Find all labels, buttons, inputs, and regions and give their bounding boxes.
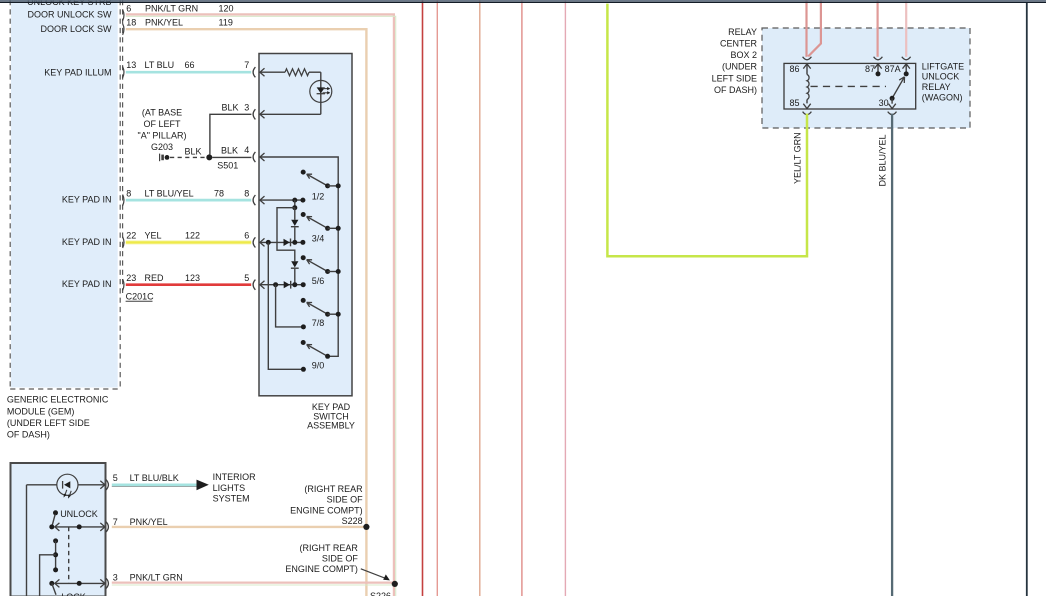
- svg-text:RED: RED: [145, 273, 165, 283]
- keypad pin 4 connector: [244, 145, 264, 162]
- keypad pin 3 connector: [244, 103, 264, 120]
- svg-text:3/4: 3/4: [312, 234, 325, 244]
- keypad branch pin 6 to 9/0 row: [268, 242, 306, 371]
- mechanical link (dashed): [68, 527, 70, 584]
- wire YEL/LT GRN from relay pin 85: [607, 4, 807, 257]
- wire BLK (G203 to S501, dashed): [170, 146, 206, 157]
- center contact chain: [40, 538, 59, 596]
- GEM pin 22 connector bracket: [123, 231, 137, 248]
- ground G203 location label: [138, 108, 187, 152]
- wire feed to relay pin 86 (vertical): [805, 0, 807, 57]
- keypad row line pin 5 (5/6) with diode: [260, 281, 306, 289]
- wire DK BLU/YEL label (rotated): [878, 134, 888, 186]
- door lock switch pin 7 connector: [100, 517, 117, 532]
- GEM pin 6 connector bracket: [123, 3, 132, 21]
- svg-text:PNK/LT GRN: PNK/LT GRN: [145, 3, 198, 13]
- driver door lock switch box: [11, 463, 106, 596]
- svg-text:RELAY: RELAY: [922, 82, 951, 92]
- svg-text:BLK: BLK: [185, 146, 202, 156]
- keypad switch 7/8: [301, 298, 341, 328]
- interior lights system label: [213, 472, 257, 504]
- wire DK BLU/YEL from relay pin 30: [891, 114, 893, 596]
- svg-text:S226: S226: [370, 591, 391, 596]
- GEM pin 13 connector bracket: [123, 60, 137, 78]
- svg-text:4: 4: [244, 145, 249, 155]
- svg-text:8: 8: [126, 188, 131, 198]
- unlock switch: [49, 509, 97, 531]
- svg-text:122: 122: [185, 231, 200, 241]
- svg-text:PNK/LT GRN: PNK/LT GRN: [130, 573, 183, 583]
- keypad pin 6 connector: [244, 231, 264, 248]
- svg-text:8: 8: [244, 188, 249, 198]
- svg-text:(UNDER LEFT SIDE: (UNDER LEFT SIDE: [7, 418, 90, 428]
- wire 66 labels: [145, 60, 195, 70]
- wire YEL/LT GRN label (rotated): [793, 132, 803, 184]
- svg-text:119: 119: [219, 18, 233, 28]
- svg-text:PNK/YEL: PNK/YEL: [145, 18, 183, 28]
- keypad assembly name label: [307, 402, 355, 431]
- svg-text:MODULE (GEM): MODULE (GEM): [7, 406, 75, 416]
- keypad pin 5 connector: [244, 273, 264, 290]
- svg-text:5/6: 5/6: [312, 276, 325, 286]
- svg-text:G203: G203: [151, 142, 173, 152]
- keypad switch 9/0: [301, 340, 330, 371]
- svg-text:1/2: 1/2: [312, 191, 325, 201]
- svg-text:LT BLU: LT BLU: [145, 60, 175, 70]
- svg-text:C201C: C201C: [126, 291, 155, 301]
- wire 122 labels: [145, 231, 201, 241]
- svg-text:ENGINE COMPT): ENGINE COMPT): [285, 564, 358, 574]
- svg-text:RELAY: RELAY: [728, 27, 757, 37]
- interior lights system arrow: [197, 480, 209, 491]
- svg-text:87: 87: [865, 64, 875, 74]
- svg-text:OF DASH): OF DASH): [7, 430, 50, 440]
- svg-text:YEL: YEL: [145, 231, 162, 241]
- keypad switch 1/2: [301, 170, 341, 202]
- svg-text:S228: S228: [342, 516, 363, 526]
- door lock switch pin 3 connector: [100, 573, 117, 589]
- svg-text:7/8: 7/8: [312, 318, 325, 328]
- wire PNK/YEL (pin 7 to S228): [112, 526, 367, 528]
- svg-text:22: 22: [126, 231, 136, 241]
- wire BLK (S501 to keypad pin 4): [212, 145, 251, 157]
- wire feed to relay pin 87: [876, 0, 878, 57]
- keypad switch assembly box: [259, 54, 352, 396]
- svg-text:LOCK: LOCK: [61, 592, 86, 596]
- ground symbol G203: [160, 154, 170, 162]
- S226 location label with arrow: [285, 543, 391, 596]
- relay switch arm 30-87A: [890, 77, 905, 101]
- wire PNK/LT GRN (pin 3 to S226): [112, 583, 395, 585]
- svg-text:KEY PAD ILLUM: KEY PAD ILLUM: [44, 68, 111, 78]
- switch illumination LED: [27, 474, 105, 498]
- svg-text:BOX 2: BOX 2: [730, 50, 757, 60]
- svg-text:DOOR UNLOCK SW: DOOR UNLOCK SW: [27, 10, 112, 20]
- door lock switch pin 5 connector: [100, 473, 117, 490]
- keypad switch 5/6: [301, 255, 341, 286]
- keypad pin 8 connector: [244, 188, 264, 205]
- relay pin 87A: [885, 57, 911, 77]
- svg-text:OF LEFT: OF LEFT: [143, 119, 181, 129]
- wire 120 labels: [145, 3, 234, 13]
- svg-text:5: 5: [113, 473, 118, 483]
- svg-text:ASSEMBLY: ASSEMBLY: [307, 421, 355, 431]
- svg-text:(RIGHT REAR: (RIGHT REAR: [300, 543, 359, 553]
- svg-text:UNLOCK: UNLOCK: [922, 72, 960, 82]
- GEM pin 18 connector bracket: [123, 18, 137, 35]
- svg-text:KEY PAD IN: KEY PAD IN: [62, 237, 112, 247]
- svg-text:CENTER: CENTER: [720, 39, 758, 49]
- svg-text:"A" PILLAR): "A" PILLAR): [138, 130, 187, 140]
- keypad pin 7 connector: [244, 60, 264, 77]
- svg-text:(UNDER: (UNDER: [722, 62, 757, 72]
- svg-text:BLK: BLK: [222, 103, 239, 113]
- svg-text:3: 3: [113, 573, 118, 583]
- keypad row line pin 8 (1/2): [260, 198, 306, 203]
- wire PNK/LT GRN label: [130, 573, 183, 583]
- svg-text:(AT BASE: (AT BASE: [142, 108, 182, 118]
- svg-text:UNLOCK: UNLOCK: [60, 509, 98, 519]
- svg-text:INTERIOR: INTERIOR: [213, 472, 257, 482]
- wire BLK (S501 to keypad pin 3): [210, 103, 252, 155]
- svg-text:OF DASH): OF DASH): [714, 85, 757, 95]
- relay center label: [712, 27, 758, 95]
- wire YEL circuit 122 (GEM pin 22 to keypad pin 6): [126, 240, 251, 244]
- wire 123 labels: [145, 273, 201, 283]
- lock row line to pin 3: [55, 581, 105, 586]
- svg-text:GENERIC ELECTRONIC: GENERIC ELECTRONIC: [7, 395, 109, 405]
- relay coil 86-85: [807, 64, 809, 104]
- svg-text:23: 23: [126, 273, 136, 283]
- svg-text:18: 18: [126, 18, 136, 28]
- splice S228: [363, 524, 369, 530]
- svg-text:66: 66: [185, 60, 195, 70]
- keypad illumination LED: [310, 72, 332, 114]
- svg-text:YEL/LT GRN: YEL/LT GRN: [793, 132, 803, 184]
- keypad branch pin 5 to 7/8 row: [276, 285, 306, 330]
- svg-text:78: 78: [214, 188, 224, 198]
- top border bar: [0, 0, 1046, 3]
- svg-text:S501: S501: [217, 161, 238, 171]
- relay pin 85: [789, 98, 811, 115]
- svg-text:7: 7: [244, 60, 249, 70]
- svg-text:(WAGON): (WAGON): [922, 92, 963, 102]
- connector C201C label: [126, 291, 155, 301]
- S228 location label: [290, 484, 363, 526]
- svg-text:120: 120: [219, 3, 234, 13]
- svg-text:9/0: 9/0: [312, 361, 325, 371]
- svg-text:ENGINE COMPT): ENGINE COMPT): [290, 505, 363, 515]
- keypad switch 3/4: [301, 212, 341, 244]
- svg-text:KEY PAD IN: KEY PAD IN: [62, 279, 112, 289]
- keypad diode ladder from pin 8 node: [277, 200, 299, 285]
- wire LT BLU circuit 66 (GEM pin 13 to keypad pin 7): [126, 71, 251, 74]
- pass-through wire at x=437.3: [436, 0, 438, 596]
- wire LT BLU/YEL circuit 78 (GEM pin 8 to keypad pin 8): [126, 199, 251, 202]
- svg-text:13: 13: [126, 60, 136, 70]
- svg-text:KEY PAD IN: KEY PAD IN: [62, 195, 112, 205]
- wire PNK/YEL label: [130, 517, 168, 527]
- wire LED return to keypad pin 3: [260, 113, 321, 115]
- keypad illumination resistor: [260, 69, 321, 76]
- svg-text:6: 6: [244, 231, 249, 241]
- splice S501: [206, 154, 238, 170]
- pass-through wire at x=422.5: [422, 0, 424, 596]
- wire PNK/YEL circuit 119 (GEM pin 18 to splice S228): [126, 29, 367, 596]
- liftgate unlock relay box U2: [784, 63, 916, 109]
- pass-through wire at x=565.4: [564, 0, 566, 596]
- svg-text:3: 3: [244, 103, 249, 113]
- svg-text:30: 30: [879, 98, 889, 108]
- wire 119 labels: [145, 18, 233, 28]
- unlock row line to pin 7: [55, 524, 105, 529]
- svg-text:SIDE OF: SIDE OF: [327, 495, 364, 505]
- svg-text:DK BLU/YEL: DK BLU/YEL: [878, 134, 888, 186]
- wire RED circuit 123 (GEM pin 23 to keypad pin 5): [126, 283, 251, 286]
- svg-text:LIFTGATE: LIFTGATE: [922, 61, 964, 71]
- pass-through wire at x=479.8: [479, 0, 481, 596]
- svg-text:87A: 87A: [885, 64, 901, 74]
- relay pin 87: [865, 57, 882, 77]
- pass-through wire at x=521.9: [521, 0, 523, 596]
- wire feed to relay pin 87A: [905, 0, 907, 57]
- svg-text:LEFT SIDE: LEFT SIDE: [712, 73, 757, 83]
- splice S226: [392, 581, 398, 587]
- svg-text:86: 86: [789, 64, 799, 74]
- GEM module box (GENERIC ELECTRONIC MODULE) U-GEM: [10, 0, 122, 389]
- svg-text:7: 7: [113, 517, 118, 527]
- svg-text:DOOR LOCK SW: DOOR LOCK SW: [40, 24, 112, 34]
- relay pin 86: [789, 57, 811, 74]
- svg-text:123: 123: [185, 273, 200, 283]
- liftgate unlock relay label: [922, 61, 964, 102]
- svg-text:5: 5: [244, 273, 249, 283]
- svg-text:85: 85: [789, 98, 799, 108]
- svg-text:PNK/YEL: PNK/YEL: [130, 517, 168, 527]
- GEM pin 23 connector bracket: [123, 273, 137, 291]
- wire LT BLU/BLK (pin 5 to interior lights): [112, 485, 197, 487]
- keypad row line pin 6 (3/4) with diode: [260, 239, 306, 247]
- svg-text:BLK: BLK: [221, 145, 238, 155]
- svg-text:LT BLU/YEL: LT BLU/YEL: [145, 188, 194, 198]
- relay linkage dashed line: [811, 85, 887, 87]
- GEM module name label: [7, 395, 109, 440]
- wire feed to relay pin 86 (angled): [808, 0, 821, 56]
- LED return wire inside switch: [26, 485, 28, 596]
- svg-text:(RIGHT REAR: (RIGHT REAR: [304, 484, 363, 494]
- svg-text:SYSTEM: SYSTEM: [213, 494, 250, 504]
- wire LT BLU/BLK label: [130, 473, 179, 483]
- svg-text:6: 6: [126, 3, 131, 13]
- GEM pin 8 connector bracket: [123, 188, 132, 205]
- svg-text:LT BLU/BLK: LT BLU/BLK: [130, 473, 179, 483]
- GEM left pin function labels: [27, 0, 112, 289]
- page right border line: [1026, 3, 1028, 596]
- wire 78 labels: [145, 188, 225, 198]
- relay center box 2 (dashed): [762, 28, 970, 128]
- svg-text:LIGHTS: LIGHTS: [213, 483, 246, 493]
- keypad common bus from pin 4: [260, 157, 338, 356]
- svg-text:SIDE OF: SIDE OF: [322, 554, 359, 564]
- lock switch: [49, 579, 85, 596]
- relay pin 30: [879, 98, 897, 115]
- wire PNK/LT GRN circuit 120 (GEM pin 6 to splice S226): [126, 14, 396, 596]
